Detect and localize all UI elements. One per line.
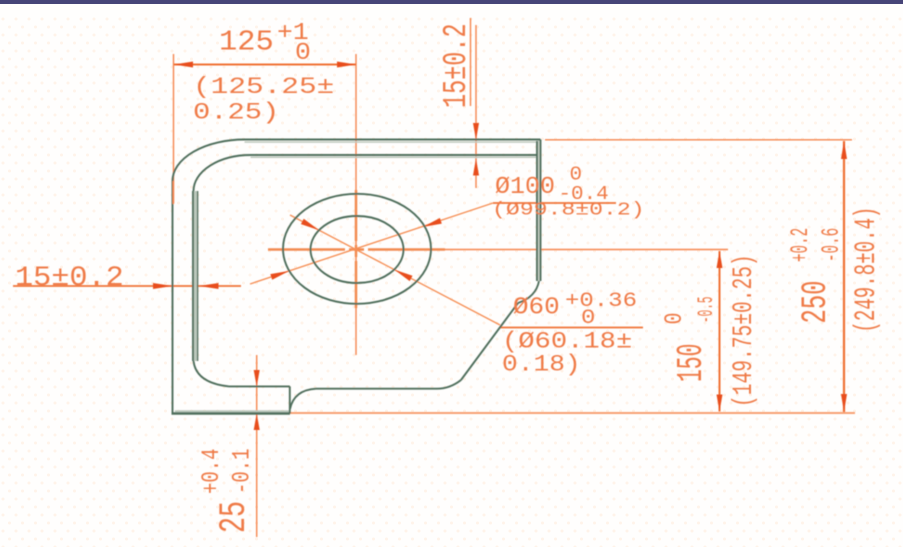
svg-text:15±0.2: 15±0.2 (15, 262, 124, 294)
dia100 shoulder (493, 202, 616, 204)
svg-text:(249.8±0.4): (249.8±0.4) (850, 207, 883, 333)
svg-text:-0.1: -0.1 (228, 448, 256, 494)
150 top arrow (up) (717, 251, 723, 268)
right edge inner (536, 141, 538, 281)
outer left edge (172, 181, 174, 414)
dimension line 125 (174, 64, 356, 66)
150 bottom arrow (down) (717, 395, 723, 412)
125 right arrow (337, 62, 356, 68)
underline of top 15 text (470, 18, 472, 106)
dim line 25 bottom (256, 355, 258, 537)
arrows (153, 62, 847, 431)
svg-text:250: 250 (797, 280, 837, 323)
bottom reference line (290, 412, 855, 414)
extension line left of 125 dim (173, 54, 175, 203)
dimension line 250 (843, 141, 845, 412)
svg-text:+0.4: +0.4 (198, 448, 226, 494)
flange top line (316, 388, 437, 390)
svg-text:15±0.2: 15±0.2 (437, 23, 475, 108)
125 left arrow (174, 62, 193, 68)
25 upper arrow (down) (254, 370, 260, 387)
inner circle (311, 216, 404, 283)
25 lower arrow (up) (254, 414, 260, 431)
right edge outer (540, 140, 542, 282)
svg-text:0.25): 0.25) (193, 99, 279, 126)
svg-text:(125.25±: (125.25± (193, 74, 334, 100)
dia60 leader line (290, 215, 500, 325)
svg-text:0.18): 0.18) (502, 352, 581, 378)
svg-text:(Ø99.8±0.2): (Ø99.8±0.2) (492, 200, 645, 220)
svg-text:(Ø60.18±: (Ø60.18± (502, 328, 632, 355)
grey double-line shading of edges (175, 140, 541, 411)
inner top-left corner arc (194, 155, 251, 191)
250 bottom arrow (down) (841, 394, 847, 412)
outer top-left corner arc (173, 140, 245, 182)
step curve (290, 389, 316, 409)
circle horizontal centerline (268, 248, 345, 251)
inner left edge (192, 191, 194, 361)
svg-text:+0.2: +0.2 (787, 228, 815, 262)
svg-text:-0.6: -0.6 (818, 228, 846, 262)
15left right-pointing arrow (153, 283, 173, 289)
inner bottom line (229, 385, 290, 387)
15top upper arrow (down) (473, 123, 479, 140)
extension line top right (250 dim top) (545, 139, 852, 141)
dia60 shoulder (500, 327, 643, 329)
svg-text:0: 0 (660, 313, 689, 325)
svg-text:(149.75±0.25): (149.75±0.25) (729, 254, 760, 407)
svg-text:Ø60: Ø60 (513, 294, 560, 321)
inner top edge (251, 154, 538, 156)
outer bottom edge (172, 412, 291, 415)
outer top edge (245, 139, 541, 141)
dimension line 150 (719, 251, 721, 412)
svg-text:-0.5: -0.5 (696, 297, 720, 323)
step vertical (289, 386, 291, 413)
inner bottom-left fillet (194, 361, 230, 386)
dia60 upper-left arrow (points down-right) (301, 219, 319, 231)
svg-text:Ø100: Ø100 (495, 173, 555, 201)
15top lower arrow (up) (473, 159, 479, 176)
svg-text:+0.36: +0.36 (565, 290, 637, 313)
15left left-pointing arrow (199, 283, 219, 289)
extension line center-right (150 dim top) (430, 249, 728, 251)
svg-text:125: 125 (219, 25, 274, 58)
dia60 lower-right arrow (points up-left) (394, 270, 412, 282)
dim line 15 left (13, 285, 241, 287)
svg-text:0: 0 (581, 307, 595, 330)
svg-text:25: 25 (213, 501, 255, 533)
circle vertical centerline (355, 190, 358, 241)
dia100 leader line (250, 203, 493, 284)
svg-text:0: 0 (295, 39, 311, 67)
bottom-right fillet (437, 380, 461, 389)
diagonal edge (461, 303, 518, 380)
right corner curve (518, 281, 539, 303)
dim line 15 top (475, 25, 477, 188)
extension line overlap on left edge (drawn over part line) (172, 181, 174, 204)
outer circle (ellipse due to screen stretch) (283, 194, 431, 304)
extension line right of 125 dim / vertical centerline (355, 54, 357, 355)
dia100 upper-right arrow (points down-left) (423, 218, 442, 227)
svg-text:150: 150 (671, 344, 712, 382)
dia100 lower-left arrow (points up-right) (270, 271, 289, 280)
title bar (0, 0, 903, 4)
250 top arrow (up) (841, 141, 847, 159)
